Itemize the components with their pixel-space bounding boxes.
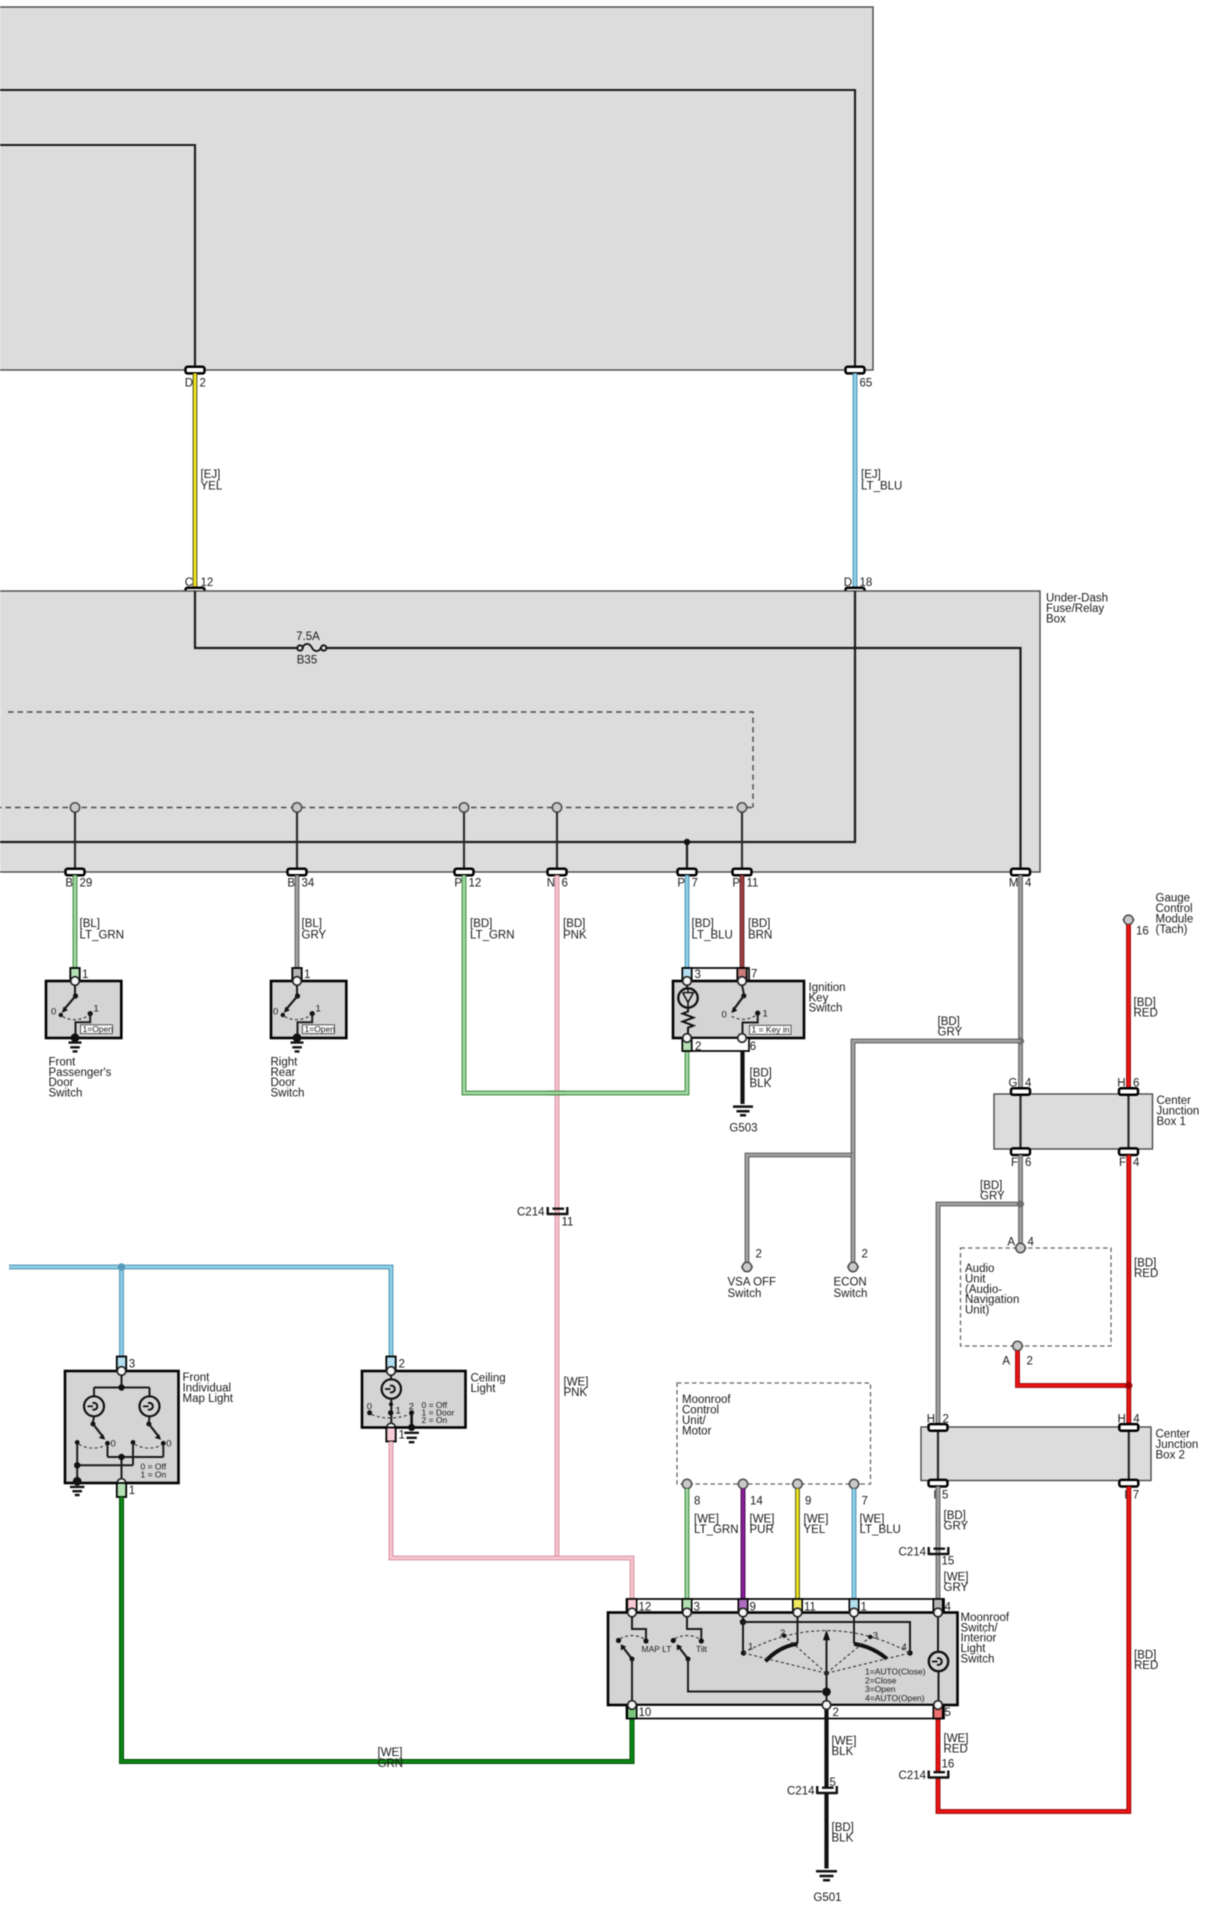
svg-text:4: 4 (1133, 1157, 1140, 1169)
wire [BD] PNK N6 down through C214 (557, 875, 587, 1558)
svg-text:6: 6 (750, 1041, 756, 1053)
node circle B34 feed (292, 803, 301, 871)
svg-text:1=Open: 1=Open (83, 1024, 114, 1034)
connector pin H 6 (1117, 1078, 1139, 1095)
svg-text:[BD]: [BD] (748, 918, 770, 930)
wire gray to VSA OFF switch (747, 1155, 853, 1262)
wire D18 bus to P7 (0, 591, 855, 871)
svg-text:7.5A: 7.5A (296, 631, 320, 643)
svg-text:34: 34 (302, 878, 315, 890)
svg-text:RED: RED (1134, 1008, 1158, 1020)
svg-text:P: P (732, 878, 740, 890)
map light switch right (131, 1416, 172, 1449)
svg-text:16: 16 (1136, 926, 1149, 938)
node circle P12 feed (459, 803, 468, 871)
svg-text:Switch: Switch (809, 1003, 843, 1015)
svg-text:2: 2 (399, 1359, 405, 1371)
wire [WE] GRN map pin1 to moonroof pin 10 (122, 1497, 633, 1770)
svg-text:6: 6 (1025, 1157, 1031, 1169)
svg-text:G501: G501 (813, 1892, 841, 1904)
wire [BD] LT_GRN P12 to ignition pin 2 (464, 875, 687, 1093)
svg-text:14: 14 (750, 1495, 763, 1507)
svg-text:4=AUTO(Open): 4=AUTO(Open) (865, 1693, 925, 1703)
wire [BL] LT_GRN to front passenger door switch (75, 875, 124, 968)
svg-text:P: P (454, 878, 462, 890)
svg-text:LT_GRN: LT_GRN (694, 1524, 739, 1536)
svg-text:1: 1 (316, 1004, 321, 1015)
svg-text:2: 2 (833, 1707, 839, 1719)
svg-text:C214: C214 (787, 1786, 815, 1798)
connector pin I 7 (1119, 1480, 1139, 1502)
wire internal bus to pin D2 (0, 145, 195, 367)
connector pin 65 (846, 367, 873, 390)
svg-text:ECON: ECON (834, 1276, 867, 1288)
svg-text:1: 1 (763, 1009, 768, 1020)
svg-text:1 = On: 1 = On (141, 1470, 167, 1480)
svg-text:Switch: Switch (834, 1288, 868, 1300)
svg-text:G503: G503 (729, 1122, 757, 1134)
wire [BD] BLK to G501 (827, 1794, 854, 1869)
wire [BD] GRY F6 down, branch to CJB2 H2 and A4 (938, 1155, 1024, 1425)
center junction box 2 (921, 1427, 1198, 1481)
map light internal feed split (94, 1375, 150, 1396)
svg-text:PNK: PNK (563, 930, 587, 942)
svg-text:8: 8 (694, 1495, 700, 1507)
svg-text:7: 7 (751, 969, 757, 981)
moonroof control pin 8 (681, 1479, 700, 1507)
svg-text:RED: RED (944, 1744, 968, 1756)
ignition key-in lamp and resistor (678, 985, 697, 1033)
svg-text:5: 5 (945, 1707, 951, 1719)
moonroof rotary common to pin 2 (822, 1667, 926, 1705)
wire [BL] GRY to right rear door switch (297, 875, 327, 968)
svg-text:2: 2 (756, 1249, 762, 1261)
ceiling light pin 1 (386, 1423, 405, 1441)
connector pin F 4 (1119, 1148, 1140, 1169)
inline connector C214 pin 15 (899, 1547, 955, 1568)
svg-text:YEL: YEL (804, 1524, 826, 1536)
svg-text:Switch: Switch (49, 1088, 83, 1100)
ignition bottom pins 2 and 6 (682, 1034, 756, 1053)
map light pin 1 (117, 1479, 135, 1497)
svg-text:0: 0 (111, 1439, 116, 1450)
svg-text:7: 7 (692, 878, 698, 890)
svg-text:2 = On: 2 = On (422, 1415, 448, 1425)
ceiling light box (362, 1367, 506, 1428)
svg-text:Switch: Switch (728, 1288, 762, 1300)
connector pin P 11 (732, 869, 758, 890)
ceiling light pin2-contact ground (404, 1413, 419, 1443)
svg-text:BRN: BRN (748, 930, 772, 942)
svg-text:0: 0 (273, 1007, 278, 1018)
svg-text:[EJ]: [EJ] (861, 469, 881, 481)
svg-text:[BD]: [BD] (692, 918, 714, 930)
svg-text:7: 7 (862, 1495, 868, 1507)
svg-text:1: 1 (748, 1642, 753, 1653)
svg-text:Box 1: Box 1 (1157, 1116, 1186, 1128)
svg-text:6: 6 (562, 878, 568, 890)
svg-text:B35: B35 (297, 655, 317, 667)
svg-text:11: 11 (562, 1217, 574, 1229)
moonroof switch / interior light switch box (608, 1608, 1010, 1705)
connector pin D 2 (185, 367, 206, 390)
node circle N6 feed (552, 803, 561, 871)
ceiling lamp bulb (382, 1375, 401, 1398)
moonroof control unit/motor dashed box (677, 1383, 871, 1484)
connector pin I 5 (929, 1480, 949, 1502)
audio pin A 2 (1002, 1341, 1033, 1367)
svg-text:[EJ]: [EJ] (201, 469, 221, 481)
svg-text:Box 2: Box 2 (1156, 1450, 1185, 1462)
connector pin H 2 (927, 1413, 949, 1430)
svg-text:Box: Box (1046, 613, 1066, 625)
connector pin B 34 (287, 869, 315, 890)
svg-text:LT_BLU: LT_BLU (692, 930, 733, 942)
wire [WE] PUR pin14 to switch pin 9 (743, 1489, 774, 1599)
svg-text:Map Light: Map Light (183, 1393, 234, 1405)
ceiling light pin 2 (386, 1357, 405, 1371)
moonroof rotary wiper arrow (744, 1628, 911, 1676)
svg-text:2: 2 (1027, 1355, 1033, 1367)
interior light bulb (929, 1617, 948, 1705)
svg-text:2: 2 (862, 1249, 868, 1261)
svg-text:1: 1 (399, 1430, 405, 1442)
connector pin M 4 (1009, 869, 1032, 890)
svg-text:PUR: PUR (750, 1524, 774, 1536)
svg-text:[BD]: [BD] (563, 918, 585, 930)
svg-text:[BL]: [BL] (80, 918, 100, 930)
svg-text:GRY: GRY (302, 930, 327, 942)
wire red moonroof pin5 to C214-16 (938, 1705, 968, 1771)
wire [WE] YEL pin9 to switch pin 11 (798, 1489, 829, 1599)
wire [EJ] YEL (195, 373, 223, 587)
connector pin G 4 (1009, 1078, 1032, 1095)
svg-text:0: 0 (51, 1007, 56, 1018)
moonroof control pin 14 (737, 1479, 763, 1507)
wire crossing patch green over pink (548, 1091, 566, 1096)
wire I5 gray to moonroof switch pin 4 (938, 1487, 969, 1600)
CJB2 internal links (938, 1427, 1129, 1481)
svg-text:Motor: Motor (682, 1425, 712, 1437)
wire I7 red loop to moonroof pin 5 (938, 1487, 1158, 1812)
connector pin F 6 (1011, 1148, 1031, 1169)
svg-text:Tilt: Tilt (696, 1644, 708, 1654)
connector pin H 4 (1117, 1413, 1140, 1430)
svg-text:A: A (1002, 1355, 1010, 1367)
svg-text:15: 15 (942, 1556, 955, 1568)
connector pin C 12 (185, 577, 214, 594)
svg-text:GRY: GRY (938, 1027, 963, 1039)
svg-text:M: M (1009, 878, 1019, 890)
svg-text:65: 65 (860, 378, 873, 390)
svg-text:BLK: BLK (832, 1746, 854, 1758)
dashed internal block in fuse box (0, 712, 753, 808)
svg-text:29: 29 (80, 878, 93, 890)
connector pin B 29 (65, 869, 92, 890)
moonroof rotary switch feed pin 9 (740, 1617, 913, 1656)
svg-text:C214: C214 (899, 1547, 927, 1559)
svg-text:16: 16 (942, 1758, 955, 1770)
inline connector C214 pin 16 (899, 1758, 955, 1782)
Under-Dash Fuse/Relay Box (0, 591, 1108, 872)
wire blue feed to map light and ceiling light (9, 1263, 391, 1356)
svg-text:0: 0 (722, 1010, 727, 1021)
svg-text:3: 3 (695, 969, 701, 981)
svg-text:LT_GRN: LT_GRN (470, 930, 515, 942)
svg-text:1: 1 (82, 969, 88, 981)
svg-text:2: 2 (780, 1628, 785, 1639)
wire [BD] LT_BLU P7 to ignition pin 3 (687, 875, 733, 968)
node circle P11 feed (737, 803, 746, 871)
center junction box 1 (994, 1094, 1199, 1149)
map lamp bulb right (140, 1396, 160, 1416)
map lamp bulb left (84, 1396, 104, 1416)
inline connector C214 pin 11 (517, 1207, 573, 1229)
svg-text:BLK: BLK (750, 1078, 772, 1090)
audio pin A 4 (1007, 1237, 1034, 1253)
svg-text:A: A (1007, 1237, 1015, 1249)
front individual map light pin 3 (117, 1357, 135, 1371)
svg-text:MAP LT: MAP LT (642, 1644, 672, 1654)
moonroof switch top connector strip (627, 1599, 952, 1613)
front individual map light box (65, 1367, 234, 1483)
svg-text:1: 1 (94, 1004, 99, 1015)
node circle B29 feed (70, 803, 79, 871)
svg-text:LT_BLU: LT_BLU (861, 481, 902, 493)
svg-text:Switch: Switch (961, 1654, 995, 1666)
ECON switch pin 2 (834, 1249, 868, 1300)
svg-text:Unit): Unit) (965, 1305, 989, 1317)
ceiling light selector (367, 1399, 455, 1428)
wire [BD] RED F4 down to CJB2 H4 (1129, 1155, 1158, 1425)
svg-text:[BL]: [BL] (302, 918, 322, 930)
svg-text:3: 3 (129, 1359, 135, 1371)
MAP LT switch (616, 1617, 672, 1705)
svg-text:5: 5 (830, 1777, 836, 1789)
ground G501 (813, 1871, 841, 1904)
moonroof control pin 9 (792, 1479, 812, 1507)
svg-text:1: 1 (129, 1485, 135, 1497)
CJB1 internal links (1021, 1094, 1129, 1149)
svg-text:C214: C214 (517, 1207, 545, 1219)
svg-text:0: 0 (166, 1439, 171, 1450)
svg-text:11: 11 (747, 878, 759, 890)
svg-text:2: 2 (200, 378, 206, 390)
moonroof control pin 7 (848, 1479, 868, 1507)
connector pin D 18 (844, 577, 873, 594)
svg-text:P: P (677, 878, 685, 890)
connector pin N 6 (547, 869, 568, 890)
moonroof switch bottom connector strip (627, 1701, 951, 1720)
wire internal bus to pin 65 (0, 90, 855, 367)
gauge control module pin 16 (1123, 893, 1194, 938)
svg-text:F: F (1119, 1157, 1126, 1169)
svg-text:1: 1 (304, 969, 310, 981)
inline connector C214 pin 5 (787, 1777, 837, 1798)
wire [EJ] LT_BLU (855, 373, 902, 587)
svg-text:Light: Light (471, 1383, 497, 1395)
svg-text:D: D (185, 378, 193, 390)
svg-text:(Tach): (Tach) (1156, 924, 1188, 936)
wire [WE] LT_BLU pin7 to switch pin 1 (854, 1489, 901, 1599)
svg-text:GRY: GRY (944, 1521, 969, 1533)
driver's MICU box (top gray box) (0, 7, 873, 370)
wire M4 gray down to CJB1 G4 (1018, 875, 1023, 1088)
ignition switch blade and contacts (722, 985, 792, 1034)
svg-text:LT_BLU: LT_BLU (860, 1524, 901, 1536)
fuse 7.5A B35 (296, 631, 326, 666)
svg-text:GRN: GRN (378, 1758, 404, 1770)
wire [BD] BRN P11 to ignition pin 7 (742, 875, 772, 968)
ground G503 (729, 1107, 757, 1135)
svg-text:LT_GRN: LT_GRN (80, 930, 125, 942)
wire C12 to fuse to M4 (195, 591, 1021, 871)
Tilt switch (671, 1617, 822, 1692)
moonroof rotary contacts from pins 11 and 1 (766, 1617, 887, 1662)
svg-text:5: 5 (942, 1490, 948, 1502)
svg-text:1: 1 (396, 1406, 401, 1417)
svg-text:GRY: GRY (944, 1582, 969, 1594)
svg-text:PNK: PNK (564, 1387, 588, 1399)
wire [WE] LT_GRN pin8 to switch pin 3 (687, 1489, 739, 1599)
connector pin P 7 (677, 869, 698, 890)
svg-text:Switch: Switch (271, 1088, 305, 1100)
right rear door switch (271, 968, 347, 1100)
svg-text:YEL: YEL (201, 481, 223, 493)
wire red A2 branch (1018, 1351, 1133, 1389)
svg-text:BLK: BLK (832, 1833, 854, 1845)
svg-text:1=Open: 1=Open (305, 1024, 336, 1034)
map light bus to pin 1 (108, 1446, 167, 1483)
svg-text:RED: RED (1134, 1660, 1158, 1672)
svg-text:RED: RED (1134, 1268, 1158, 1280)
audio unit dashed box (961, 1248, 1112, 1346)
svg-text:0: 0 (367, 1402, 372, 1413)
map light ground branch (70, 1445, 133, 1495)
front passenger's door switch (46, 968, 121, 1100)
svg-text:B: B (65, 878, 73, 890)
svg-text:10: 10 (639, 1707, 652, 1719)
svg-text:N: N (547, 878, 555, 890)
connector pin P 12 (454, 869, 481, 890)
svg-text:12: 12 (469, 878, 482, 890)
svg-text:2: 2 (695, 1041, 701, 1053)
ignition key switch (673, 968, 846, 1038)
wire [WE] PNK ceiling pin1 to moonroof pin 12 (391, 1376, 632, 1599)
wire [BD] BLK to G503 (743, 1051, 772, 1104)
svg-text:GRY: GRY (980, 1191, 1005, 1203)
svg-text:F: F (1011, 1157, 1018, 1169)
VSA OFF switch pin 2 (728, 1249, 777, 1300)
svg-text:[BD]: [BD] (470, 918, 492, 930)
wire [BD] RED gauge to CJB1 H6 (1129, 925, 1158, 1089)
wire [BD] GRY branch to VSA/ECON (853, 1016, 1024, 1155)
wire [WE] BLK pin 2 to C214-5 (827, 1719, 857, 1787)
svg-text:1 = Key in: 1 = Key in (752, 1025, 790, 1035)
svg-text:4: 4 (1025, 878, 1032, 890)
svg-text:9: 9 (805, 1495, 811, 1507)
svg-text:B: B (287, 878, 295, 890)
svg-text:7: 7 (1133, 1490, 1139, 1502)
svg-text:C214: C214 (899, 1770, 927, 1782)
svg-text:VSA OFF: VSA OFF (728, 1276, 777, 1288)
svg-text:2: 2 (409, 1401, 414, 1412)
svg-text:3: 3 (873, 1631, 878, 1642)
map light switch left (75, 1416, 116, 1449)
svg-text:4: 4 (902, 1642, 907, 1653)
svg-text:4: 4 (1028, 1237, 1035, 1249)
